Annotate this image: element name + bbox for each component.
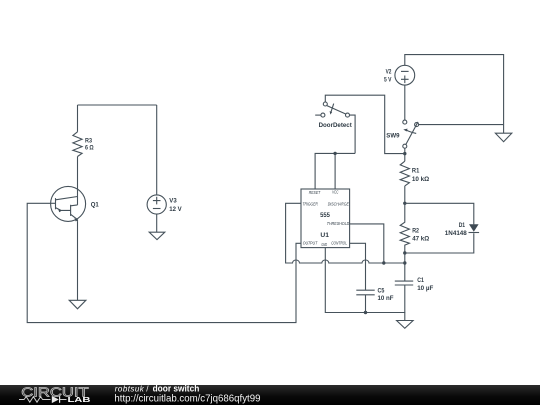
svg-text:6 Ω: 6 Ω [85,145,94,152]
svg-text:V3: V3 [169,198,177,205]
junction R1/R2/discharge [403,202,406,205]
junction R2 bottom / D1 [403,251,406,254]
wire R3 bottom lead to Q1 collector [77,157,79,187]
svg-text:RESET: RESET [309,190,321,196]
svg-text:1N4148: 1N4148 [445,230,467,237]
wire C1 bottom to gnd rail [404,285,406,313]
svg-text:12 V: 12 V [169,206,182,213]
ground right of SW9 [495,125,511,142]
switch DoorDetect [315,102,352,129]
voltage source V2 [384,65,415,85]
svg-text:DISCHARGE: DISCHARGE [328,201,350,207]
junction trigger rail / C1 [403,261,406,264]
footer bar [0,383,540,405]
ground below C1 [397,321,414,329]
wire SW9 bottom to R1 [404,148,406,161]
wire THRESHOLD to rail [350,224,384,263]
wire TRIGGER rail with hops [286,203,405,263]
wire V2 top to right then down to ground node [405,55,504,125]
svg-text:555: 555 [320,212,330,219]
svg-text:LAB: LAB [68,395,92,404]
svg-text:R2: R2 [412,227,419,234]
svg-text:DoorDetect: DoorDetect [319,122,353,129]
svg-text:TRIGGER: TRIGGER [303,201,319,207]
wire SW9 throw to ground node [419,124,504,126]
svg-text:THRESHOLD: THRESHOLD [327,221,350,227]
wire rail to RESET pin [315,153,355,189]
ground below Q1 [69,300,86,309]
svg-text:VCC: VCC [332,190,339,196]
svg-text:R3: R3 [85,137,92,144]
svg-text:door switch: door switch [153,383,200,393]
svg-text:http://circuitlab.com/c7jq686q: http://circuitlab.com/c7jq686qfyt99 [114,394,260,405]
svg-text:SW9: SW9 [386,133,400,140]
wire R1 bottom to node [404,186,406,203]
wire R3 top lead [77,105,79,132]
wire V2 bottom to SW9 pole [404,85,406,120]
wire GND pin rail [325,248,405,321]
IC U1 555 timer [301,189,350,248]
wire V3 bottom lead [156,214,158,232]
svg-text:10 kΩ: 10 kΩ [412,176,429,183]
resistor R2 [400,203,429,253]
wire C5 bottom to gnd rail [365,295,367,313]
wire discharge node to D1 top [405,203,474,224]
wire top-left horizontal R3 top to V3 top [78,104,157,106]
wire V3 top lead [156,105,158,195]
wire D1 bottom to R2 bottom node [405,233,474,253]
svg-text:U1: U1 [320,232,329,239]
voltage source V3 [147,195,182,214]
svg-text:OUTPUT: OUTPUT [303,241,318,247]
wire Q1 base net: base left, down, bottom run, up to 555 OUTPUT [27,203,301,322]
junction DoorDetect/R1 node [403,152,406,155]
wire Q1 emitter to ground [77,221,79,300]
diode D1 [445,222,479,237]
svg-text:10 nF: 10 nF [378,295,394,302]
svg-text:C1: C1 [417,277,424,284]
svg-text:C5: C5 [378,287,385,294]
wire VCC pin [334,153,336,189]
svg-text:Q1: Q1 [91,201,99,208]
capacitor C1 [395,277,434,292]
resistor R1 [400,161,429,186]
junction VCC [333,152,336,155]
svg-text:R1: R1 [412,168,420,175]
ground below V3 [149,232,165,239]
svg-text:CONTROL: CONTROL [331,240,347,246]
svg-text:robtsuk: robtsuk [115,384,145,393]
wire R2 bottom to C1 [404,253,406,281]
junction threshold/rail [382,261,385,264]
svg-text:5 V: 5 V [384,77,392,84]
resistor R3 [73,132,94,157]
junction C5/gnd rail [364,311,367,314]
switch SW9 [386,120,418,148]
capacitor C5 [356,287,393,302]
transistor Q1 (darlington) [51,186,100,221]
svg-text:10 µF: 10 µF [417,285,433,292]
svg-text:47 kΩ: 47 kΩ [412,236,429,243]
svg-text:GND: GND [321,242,327,248]
svg-text:V2: V2 [386,68,392,75]
wire CONTROL to C5 [350,243,366,290]
wire DoorDetect top terminal to R1 node [325,95,405,153]
wire DoorDetect right terminal down to reset/vcc rail [350,115,356,153]
svg-text:D1: D1 [459,222,466,229]
